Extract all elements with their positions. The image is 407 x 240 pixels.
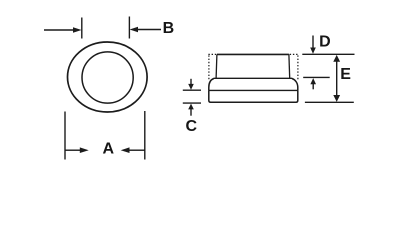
dimension D up arrow — [310, 78, 316, 89]
dimension C lower reference line — [183, 102, 201, 104]
dimension C upper reference line — [183, 89, 201, 91]
side view: base outline — [209, 90, 298, 102]
dimension C up arrow — [188, 104, 194, 116]
side view: flange top edge line — [214, 77, 293, 79]
dimension D down arrow — [310, 36, 316, 54]
svg-text:C: C — [186, 118, 198, 135]
dimension A right arrow — [121, 147, 145, 153]
dimension A right extension line — [144, 111, 146, 160]
side view: flange left rounded shoulder — [209, 79, 214, 91]
dimension A left arrow — [65, 147, 89, 153]
hidden line: right top horizontal dotted — [290, 53, 299, 55]
dimension C down arrow — [188, 79, 194, 90]
svg-text:B: B — [163, 20, 175, 37]
dimension A left extension line — [64, 112, 66, 160]
side view: top edge — [217, 53, 289, 55]
inner hole circle (front view) — [82, 52, 133, 103]
hidden line: left flange width projection (vertical dotted) — [208, 55, 210, 80]
svg-text:E: E — [340, 66, 351, 83]
svg-text:D: D — [319, 34, 331, 51]
side view: right tapered side — [288, 54, 291, 78]
dimension B left arrow — [44, 27, 82, 33]
side view: flange mid line — [209, 89, 298, 91]
hidden line: right flange width projection (vertical dotted) — [297, 55, 299, 80]
side view: left tapered side — [215, 54, 218, 78]
bottom reference line (side view, for E) — [305, 101, 354, 103]
top reference line (side view, for D and E) — [302, 53, 354, 55]
dimension D lower reference line (flange level) — [303, 76, 330, 78]
dimension B left extension line — [81, 18, 83, 39]
dimension B right arrow — [130, 27, 161, 33]
outer ring of grommet (front view) — [68, 42, 148, 112]
side view: flange right rounded shoulder — [292, 79, 298, 91]
dimension E double arrow — [333, 55, 340, 102]
dimension B right extension line — [128, 17, 130, 39]
hidden line: left top horizontal dotted — [208, 53, 216, 55]
svg-text:A: A — [103, 141, 115, 158]
